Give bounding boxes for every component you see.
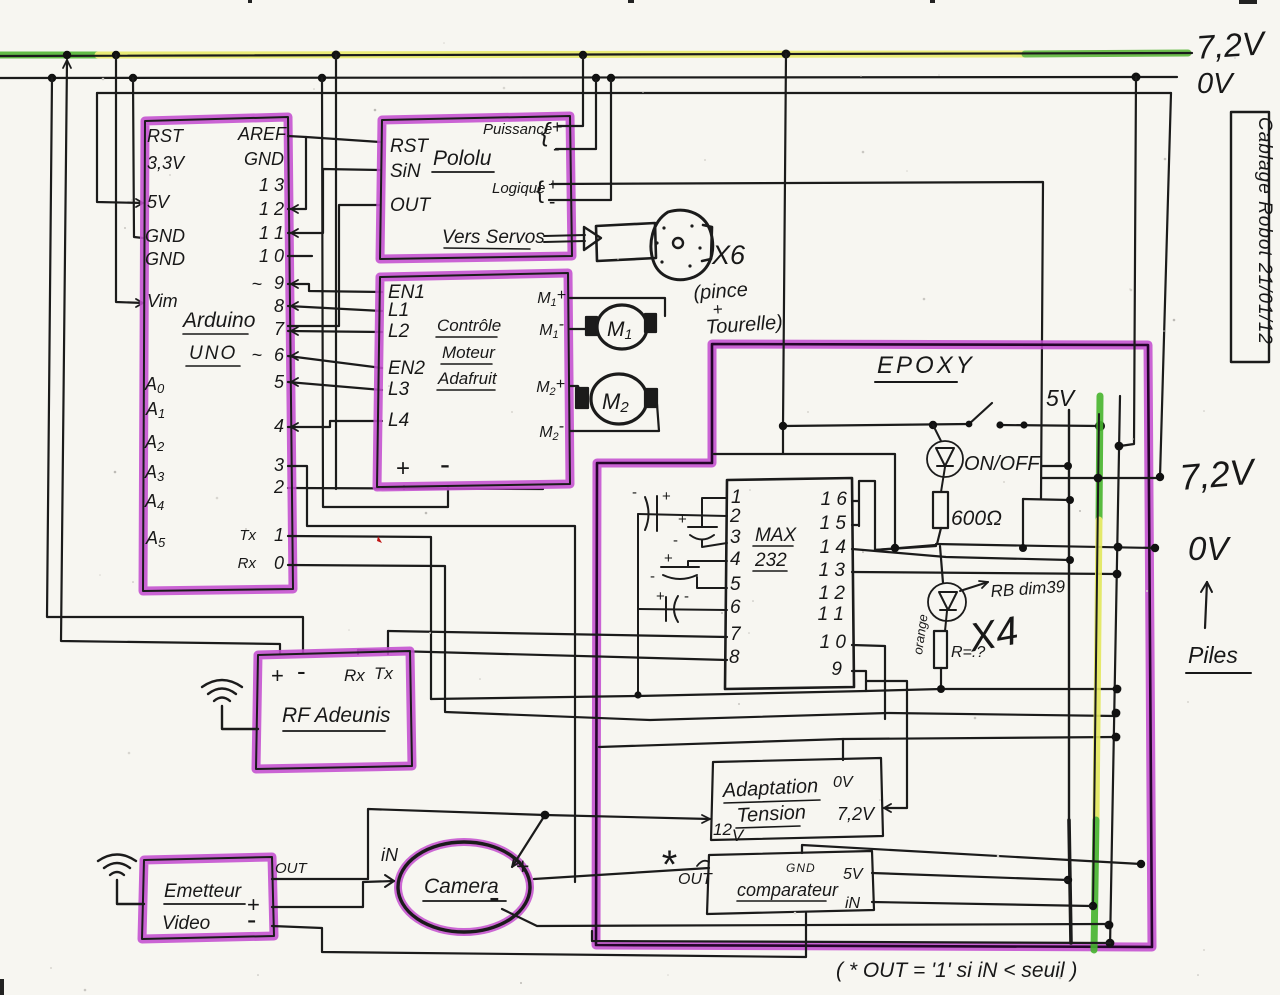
MAX232 U4 <box>725 478 854 689</box>
svg-text:Tx: Tx <box>374 664 393 683</box>
svg-text:comparateur: comparateur <box>737 880 839 900</box>
wire long bottom row y695 <box>431 689 1117 699</box>
svg-text:1 5: 1 5 <box>820 513 847 534</box>
svg-text:6: 6 <box>730 597 741 618</box>
wire arduino pin11 to pololu SIN <box>288 169 380 233</box>
wire max pin14 row to 5V column <box>852 549 1070 560</box>
wire motor plus stub <box>403 486 405 489</box>
node rail2 junctions <box>48 73 1141 83</box>
wire max pin10 <box>852 645 885 719</box>
wire black line under green <box>1093 414 1099 909</box>
svg-text:1: 1 <box>731 487 742 508</box>
wire 7.2V stub row <box>1042 477 1160 479</box>
wire arduino pin2 row <box>288 488 543 489</box>
wire 7.2V rail <box>0 53 1192 56</box>
wire 5V distribution row y93 <box>97 92 1171 94</box>
svg-text:Camera: Camera <box>424 875 499 898</box>
svg-text:1 1: 1 1 <box>259 223 284 243</box>
svg-text:232: 232 <box>754 550 787 571</box>
svg-text:Rx: Rx <box>238 555 257 572</box>
svg-text:Piles: Piles <box>1188 642 1238 668</box>
wire RF Rx stub <box>357 650 359 654</box>
motor M2 <box>570 374 659 431</box>
svg-text:OUT: OUT <box>275 860 309 877</box>
wire pololu puissance- to rail2 <box>556 80 596 149</box>
svg-text:1 3: 1 3 <box>259 175 284 195</box>
wire bottom row inside epoxy <box>592 931 1110 943</box>
wire emetteur OUT <box>272 878 368 880</box>
svg-text:Arduino: Arduino <box>181 309 256 332</box>
wire max pin9 to adaptation 7.2V <box>852 671 907 808</box>
capacitor C2 <box>688 526 717 528</box>
svg-text:-: - <box>650 568 655 585</box>
wire max pin1 jog <box>702 498 727 513</box>
svg-text:600Ω: 600Ω <box>951 507 1002 530</box>
svg-text:L4: L4 <box>388 410 409 431</box>
svg-text:AREF: AREF <box>237 124 287 144</box>
wire camera minus diagonal to row925 <box>502 909 1107 926</box>
svg-text:+: + <box>656 588 665 605</box>
cablage robot label box <box>1231 112 1275 362</box>
capacitor C1 <box>645 497 649 530</box>
arrowheads into pins <box>291 205 298 431</box>
svg-text:1: 1 <box>274 525 284 545</box>
svg-text:Rx: Rx <box>344 666 365 685</box>
svg-text:8: 8 <box>729 647 740 668</box>
wire rail1 to Vim <box>116 55 143 303</box>
svg-text:+: + <box>396 455 410 482</box>
node rail1 junctions <box>63 50 791 60</box>
wire emetteur minus <box>272 913 806 957</box>
svg-text:7,2V: 7,2V <box>1178 450 1258 498</box>
wire AREF stub <box>288 136 306 137</box>
svg-text:Video: Video <box>162 913 210 934</box>
svg-text:1 4: 1 4 <box>820 537 846 558</box>
resistor R2 <box>934 631 947 689</box>
svg-text:Vers Servos: Vers Servos <box>442 227 545 248</box>
red pen mark <box>377 536 382 543</box>
svg-text:R=.?: R=.? <box>951 644 985 661</box>
svg-text:0V: 0V <box>833 774 854 791</box>
svg-text:1 0: 1 0 <box>259 246 284 266</box>
wire RF Tx row to max pin7 <box>388 631 727 637</box>
wire 0V rail <box>0 77 1177 78</box>
wire rail2 to GND <box>133 78 143 238</box>
svg-text:7,2V: 7,2V <box>837 804 876 824</box>
servo motor symbol X6 <box>596 210 713 280</box>
svg-text:4: 4 <box>730 549 741 570</box>
svg-text:-: - <box>297 656 306 686</box>
svg-text:1 2: 1 2 <box>819 583 846 604</box>
wire comparateur GND stub <box>802 845 1141 864</box>
svg-text:{: { <box>536 177 544 204</box>
wire green highlighted 5V line <box>1094 396 1100 950</box>
epoxy region outline <box>596 344 1152 947</box>
wire RF Tx stub <box>387 631 389 654</box>
wire vertical x1120 <box>1110 396 1120 947</box>
LED D2 RB dim39 <box>928 581 988 631</box>
camera <box>381 842 530 932</box>
svg-text:7: 7 <box>274 319 285 339</box>
wire 0V row left extension <box>599 739 843 747</box>
wire arduino Tx1 <box>288 536 431 699</box>
wire pololu OUT drop <box>288 205 380 326</box>
wire cap bus vertical <box>637 514 639 696</box>
wire comparateur OUT row <box>534 868 709 879</box>
svg-text:5: 5 <box>730 574 741 595</box>
wire arduino pin8 to L1 <box>288 306 382 311</box>
svg-text:L2: L2 <box>388 321 410 342</box>
svg-text:5: 5 <box>274 372 285 392</box>
svg-text:+: + <box>678 511 687 528</box>
svg-text:OUT: OUT <box>678 871 713 888</box>
svg-text:L3: L3 <box>388 379 410 400</box>
svg-text:-: - <box>247 904 256 935</box>
wire row93 left drop to 5V pin <box>97 93 143 203</box>
svg-text:0V: 0V <box>1188 530 1231 567</box>
svg-text:~: ~ <box>251 274 262 294</box>
svg-text:2: 2 <box>729 506 741 527</box>
svg-text:1 0: 1 0 <box>820 632 847 653</box>
capacitor C3 <box>661 566 699 568</box>
svg-text:iN: iN <box>381 845 399 865</box>
svg-text:5V: 5V <box>1046 385 1077 411</box>
svg-text:( * OUT = '1' si iN < seuil ): ( * OUT = '1' si iN < seuil ) <box>836 959 1077 982</box>
svg-text:+: + <box>271 663 284 688</box>
motor M1 <box>570 298 665 349</box>
svg-text:Contrôle: Contrôle <box>437 316 501 335</box>
wire arduino Rx0 <box>288 565 445 711</box>
svg-text:L1: L1 <box>388 300 409 321</box>
svg-text:Emetteur: Emetteur <box>164 881 242 902</box>
pololu servo controller U2 <box>380 116 572 259</box>
svg-text:1 2: 1 2 <box>259 199 284 219</box>
svg-text:MAX: MAX <box>755 525 798 546</box>
svg-text:3,3V: 3,3V <box>147 153 186 173</box>
wire row815 to adaptation 12V <box>545 815 710 819</box>
wire RF Rx row to max pin8 <box>358 650 727 660</box>
wire dashed jog row <box>875 546 936 550</box>
wire 7.2V rail highlight <box>0 53 1188 55</box>
wire vers servos double arrow <box>544 235 585 242</box>
svg-text:1 3: 1 3 <box>819 560 846 581</box>
wire arduino pin7 to L2 <box>288 331 382 332</box>
antenna emetteur <box>98 855 144 905</box>
svg-text:2: 2 <box>273 477 284 497</box>
svg-text:-: - <box>632 484 637 501</box>
adaptation tension U7 <box>711 758 883 845</box>
svg-text:5V: 5V <box>147 192 171 212</box>
switch ON/OFF S1 <box>714 54 1100 548</box>
svg-text:-: - <box>489 879 500 915</box>
svg-text:Adafruit: Adafruit <box>437 369 498 388</box>
svg-text:Tx: Tx <box>239 527 256 544</box>
svg-text:RST: RST <box>390 136 429 157</box>
wire camera plus diagonal <box>512 815 545 867</box>
svg-text:3: 3 <box>730 527 741 548</box>
svg-text:GND: GND <box>145 249 185 269</box>
wire pololu logique+ long row to right column <box>552 182 1043 499</box>
antenna RF <box>202 680 258 729</box>
wire rail2 left drop to RF minus <box>47 78 303 653</box>
wire pololu puissance+ to rail1 <box>558 57 583 126</box>
svg-text:OUT: OUT <box>390 195 432 216</box>
label piles arrow <box>1201 582 1212 628</box>
wire comparateur 5V row <box>872 873 1068 880</box>
right column verticals <box>1042 77 1171 950</box>
wire rail1 left drop to RF plus <box>61 60 280 653</box>
svg-text:-: - <box>549 192 555 213</box>
svg-text:7: 7 <box>730 624 742 645</box>
wire arduino pin10 stub <box>288 255 312 257</box>
arduino UNO block U1 <box>143 117 293 591</box>
svg-text:RST: RST <box>147 126 185 146</box>
svg-text:1 6: 1 6 <box>821 489 848 510</box>
motor controller adafruit U3 <box>377 273 570 487</box>
svg-text:Cablage Robot 21/01/12: Cablage Robot 21/01/12 <box>1254 117 1275 345</box>
wire max pin13 row to x1120 column <box>852 572 1117 574</box>
wire arduino pin3 drop to camera column <box>288 466 575 882</box>
wire adaptation 0V row y737 <box>843 737 1116 760</box>
wire 5V row93 drop at right <box>1160 93 1171 477</box>
svg-text:9: 9 <box>274 273 284 293</box>
svg-text:*: * <box>660 843 677 887</box>
svg-text:EN2: EN2 <box>388 358 425 379</box>
svg-text:-: - <box>673 532 678 549</box>
svg-text:GND: GND <box>244 149 284 169</box>
svg-text:0V: 0V <box>1197 68 1235 100</box>
wire 0V drop from rail2 <box>1120 77 1136 446</box>
emetteur video U6 <box>142 857 274 939</box>
wire OUT riser to cam+ row <box>368 809 545 879</box>
svg-text:+: + <box>664 550 673 567</box>
svg-text:7,2V: 7,2V <box>1195 24 1268 66</box>
svg-text:3: 3 <box>274 455 284 475</box>
resistor R600 <box>933 492 948 583</box>
svg-text:~: ~ <box>251 345 262 365</box>
svg-text:1 1: 1 1 <box>818 604 844 625</box>
wire 5V vertical <box>1068 410 1070 820</box>
svg-text:RF Adeunis: RF Adeunis <box>282 704 391 727</box>
wire max pin16 zigzag <box>852 481 936 550</box>
wire comparateur IN row <box>872 902 1091 906</box>
svg-text:Vim: Vim <box>147 291 178 311</box>
svg-text:SiN: SiN <box>390 161 421 182</box>
wire pololu logique- to rail2 <box>549 80 611 200</box>
svg-text:Pololu: Pololu <box>433 147 492 170</box>
wire row466 <box>1042 465 1068 467</box>
wire arduino pin12 to pololu RST <box>288 137 380 209</box>
svg-text:EPOXY: EPOXY <box>877 352 975 379</box>
capacitor C4 <box>638 609 727 610</box>
wire arduino pin4 to L4 <box>288 421 382 427</box>
comparateur U8 <box>707 851 874 914</box>
svg-text:iN: iN <box>845 895 861 912</box>
svg-text:8: 8 <box>274 296 284 316</box>
wire arduino pin9 to EN1 <box>288 284 382 292</box>
svg-text:Tension: Tension <box>736 801 806 827</box>
svg-text:4: 4 <box>274 416 284 436</box>
wire arduino pin6 to EN2 <box>288 356 382 368</box>
svg-text:-: - <box>440 448 450 481</box>
wire rail2 drop x322 to motor minus <box>322 78 448 507</box>
svg-text:Moteur: Moteur <box>442 343 496 362</box>
svg-text:GND: GND <box>145 226 185 246</box>
wire rail1 drop x336 to motor plus row <box>335 55 337 489</box>
wire arduino pin5 to L3 <box>288 382 382 390</box>
svg-text:+: + <box>662 488 671 505</box>
RF module U5 <box>256 651 412 769</box>
svg-text:9: 9 <box>831 659 842 680</box>
svg-text:ON/OFF: ON/OFF <box>964 453 1041 475</box>
svg-text:X6: X6 <box>711 240 746 270</box>
svg-text:6: 6 <box>274 345 285 365</box>
wire max pin2 row <box>638 514 727 516</box>
wire 0V row y546 <box>936 544 1155 548</box>
wire emetteur plus to camera IN <box>272 881 394 907</box>
svg-text:GND: GND <box>786 861 816 875</box>
wire Rx row y713 <box>445 712 1116 720</box>
LED D1 <box>927 425 963 492</box>
svg-text:0: 0 <box>274 553 284 573</box>
svg-text:-: - <box>684 588 689 605</box>
svg-text:5V: 5V <box>843 866 864 883</box>
svg-text:UNO: UNO <box>189 343 237 364</box>
